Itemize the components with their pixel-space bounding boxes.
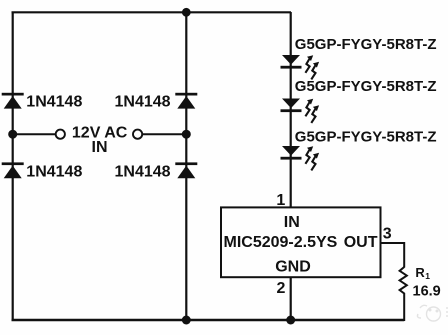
diode 1N4148 bridge top-left	[2, 93, 24, 109]
svg-text:1N4148: 1N4148	[26, 94, 82, 111]
wire: top horizontal rail	[12, 11, 292, 13]
junction dot middle column / bottom rail	[182, 316, 191, 325]
diode 1N4148 bridge top-middle	[175, 93, 197, 109]
wire: AC left terminal lead	[13, 133, 55, 135]
junction dot GND pin / bottom rail	[286, 316, 295, 325]
LED G5GP-FYGY-5R8T-Z #3	[281, 146, 320, 170]
regulator MIC5209-2.5YS box	[221, 207, 381, 277]
watermark (faint mascot bottom-right)	[417, 305, 448, 321]
svg-text:GND: GND	[275, 258, 311, 275]
svg-text:G5GP-FYGY-5R8T-Z: G5GP-FYGY-5R8T-Z	[295, 129, 437, 146]
wire: OUT pin 3 to resistor top	[380, 243, 404, 268]
resistor R1 zigzag	[400, 267, 407, 297]
diode 1N4148 bridge bottom-left	[2, 162, 24, 178]
svg-text:MIC5209-2.5YS: MIC5209-2.5YS	[224, 234, 338, 251]
wire: bottom horizontal rail	[12, 319, 405, 321]
svg-text:1N4148: 1N4148	[26, 163, 82, 180]
label R1	[415, 265, 430, 281]
svg-text:G5GP-FYGY-5R8T-Z: G5GP-FYGY-5R8T-Z	[295, 78, 437, 95]
svg-text:R: R	[415, 265, 425, 280]
svg-text:IN: IN	[284, 214, 300, 231]
junction dot left rail / AC lead	[8, 130, 17, 139]
wire: right vertical LED column into regulator pin 1	[290, 12, 292, 209]
svg-text:3: 3	[383, 226, 392, 243]
AC input terminal right (open circle)	[133, 130, 142, 139]
svg-text:1N4148: 1N4148	[115, 94, 171, 111]
junction dot top (middle column / top rail)	[182, 8, 191, 17]
LED G5GP-FYGY-5R8T-Z #1	[281, 55, 320, 79]
svg-text:IN: IN	[92, 139, 108, 156]
wire: resistor bottom to bottom rail	[403, 297, 405, 322]
svg-text:1: 1	[425, 271, 430, 281]
svg-text:2: 2	[276, 280, 285, 297]
diode 1N4148 bridge bottom-middle	[175, 162, 197, 178]
wire: regulator pin 2 (GND) to bottom rail	[290, 277, 292, 320]
wire: AC right terminal lead	[143, 133, 186, 135]
svg-text:16.9: 16.9	[413, 283, 441, 299]
LED G5GP-FYGY-5R8T-Z #2	[281, 99, 320, 123]
svg-text:1N4148: 1N4148	[115, 163, 171, 180]
wire: middle vertical (bridge center column)	[185, 12, 187, 320]
svg-text:1: 1	[276, 192, 285, 209]
svg-text:OUT: OUT	[344, 234, 378, 251]
wire: left vertical rail	[12, 12, 14, 320]
svg-text:G5GP-FYGY-5R8T-Z: G5GP-FYGY-5R8T-Z	[295, 36, 437, 53]
AC input terminal left (open circle)	[56, 130, 65, 139]
junction dot middle column / AC lead	[182, 130, 191, 139]
